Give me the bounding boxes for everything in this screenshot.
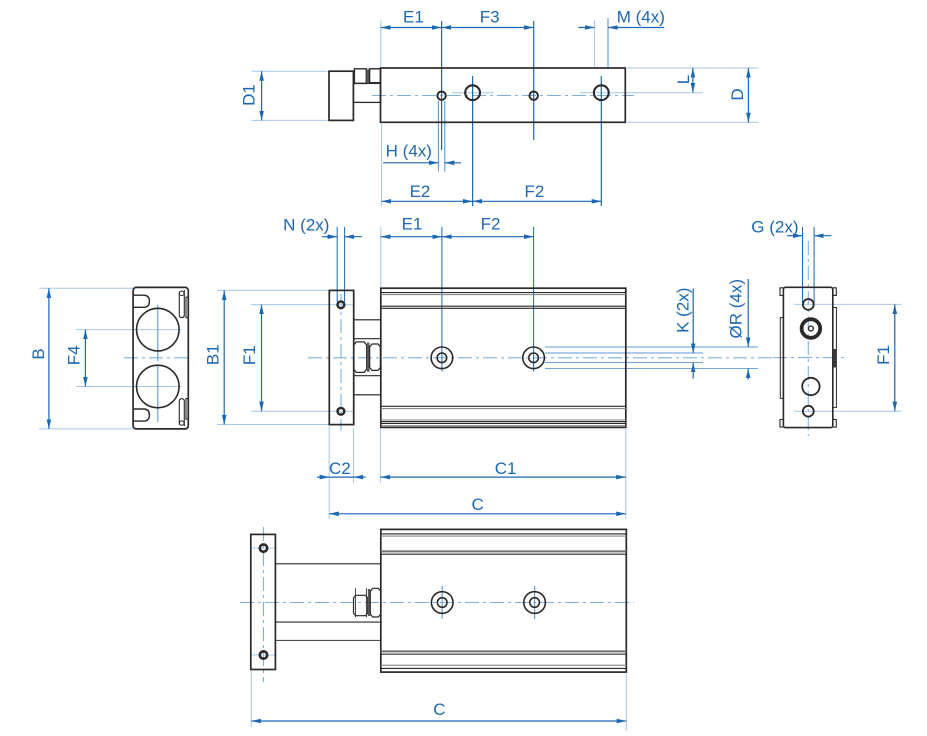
svg-text:F1: F1	[874, 345, 893, 365]
crosshair vertical counterbore 2	[534, 586, 536, 619]
plate screw bottom	[338, 408, 345, 415]
centerline horizontal	[773, 357, 847, 359]
extension lines N	[337, 227, 344, 302]
cylinder body	[381, 288, 626, 427]
extension line E1 left	[380, 21, 382, 67]
extension lines G	[803, 227, 815, 303]
extension line M left	[594, 20, 596, 67]
nut gap bar	[367, 69, 370, 83]
svg-text:E2: E2	[410, 182, 431, 201]
nut left half	[354, 342, 367, 373]
crosshair vertical big hole 1	[472, 76, 474, 206]
svg-text:B: B	[29, 348, 48, 359]
plate screw top	[260, 544, 267, 551]
nut square A	[354, 69, 366, 84]
extension line body top-right (D/L upper)	[627, 67, 759, 69]
corner tab top-left	[780, 288, 783, 296]
extension line C right	[625, 674, 627, 731]
dimension C1	[380, 476, 625, 478]
body extrusion lines bottom	[381, 405, 626, 407]
cushion screw boss	[802, 319, 821, 338]
top-right slot hook	[179, 291, 184, 296]
dimension E2	[382, 200, 473, 202]
nut square B	[370, 69, 381, 83]
svg-text:N (2x): N (2x)	[283, 215, 329, 234]
counterbore hole 2	[524, 592, 546, 614]
dimension C	[329, 513, 626, 515]
dimension D1	[261, 71, 263, 120]
crosshair vertical counterbore 1	[441, 586, 443, 619]
guide rod edge	[275, 639, 380, 641]
crosshair vertical small hole 1	[441, 21, 443, 150]
plate screw bottom	[260, 651, 267, 658]
cylinder body	[381, 68, 626, 122]
svg-text:C2: C2	[329, 459, 351, 478]
svg-text:K (2x): K (2x)	[673, 288, 692, 333]
svg-text:F3: F3	[480, 8, 500, 27]
nut left half	[354, 595, 368, 615]
extension line body bottom-right (D lower)	[627, 121, 759, 123]
profile outline	[133, 287, 188, 429]
corner tab top-right	[833, 288, 837, 296]
extension line C1 left	[379, 429, 381, 483]
nut middle bar	[368, 589, 370, 616]
port hole top	[803, 299, 814, 310]
end cap body	[783, 287, 832, 427]
dimension C	[251, 720, 626, 722]
bore circle lower	[137, 365, 180, 408]
top-right slot	[179, 290, 184, 318]
hole crosshair / F1 extension bottom	[794, 410, 901, 412]
plate screw top	[338, 301, 345, 308]
svg-text:F2: F2	[481, 214, 501, 233]
extension lines H	[438, 101, 444, 172]
extension lines D1	[252, 71, 328, 120]
crosshair vertical counterbore 1	[441, 227, 443, 372]
crosshair vertical big hole 2	[600, 76, 602, 206]
right edge strip	[833, 308, 837, 408]
rod edges	[354, 339, 381, 376]
dimension M arrows	[579, 27, 595, 29]
extension line C left	[328, 426, 330, 519]
big hole 1	[465, 85, 480, 100]
svg-text:E1: E1	[403, 8, 424, 27]
svg-text:G (2x): G (2x)	[751, 218, 798, 237]
port hole bottom	[803, 406, 814, 417]
dimension E1	[381, 27, 442, 29]
plate hole crosshairs	[330, 305, 353, 412]
dimension C2	[329, 476, 353, 478]
svg-text:C: C	[472, 495, 484, 514]
extension line C2 right	[353, 428, 355, 483]
hole crosshair / F1 extension top	[794, 303, 901, 305]
svg-text:E1: E1	[402, 214, 423, 233]
rod housing	[354, 320, 381, 395]
bore circle upper	[137, 308, 180, 351]
body extrusion lines bottom	[381, 650, 627, 652]
extension lines F1 left	[251, 305, 330, 412]
svg-text:F4: F4	[64, 345, 83, 365]
svg-text:L: L	[674, 75, 693, 84]
cylinder body	[381, 529, 627, 672]
crosshair vertical small hole 2	[533, 21, 535, 140]
extension line E1 left	[380, 227, 382, 287]
body extrusion lines top	[381, 533, 627, 535]
svg-text:B1: B1	[204, 344, 223, 365]
crosshair vertical counterbore 2	[533, 227, 535, 372]
svg-text:H (4x): H (4x)	[386, 142, 432, 161]
extension lines B1	[218, 290, 330, 424]
dimension F2	[442, 236, 534, 238]
dimension F4	[84, 330, 86, 387]
dimension L	[692, 68, 694, 93]
svg-text:C1: C1	[495, 459, 517, 478]
dimension F1 left	[261, 305, 263, 412]
plate hole crosshairs	[252, 548, 277, 655]
svg-text:M (4x): M (4x)	[617, 8, 665, 27]
mounting plate	[329, 290, 353, 424]
plate centerline vertical	[263, 527, 265, 682]
nut right half	[370, 344, 381, 370]
mounting plate	[251, 534, 276, 669]
small hole 2	[530, 92, 538, 100]
rod bottom edge	[275, 621, 380, 623]
left edge strip	[780, 318, 783, 399]
plate centerline vertical	[340, 294, 342, 431]
bottom-right slot	[179, 399, 184, 427]
dimension D	[747, 68, 749, 122]
extension line M right	[607, 18, 609, 67]
plain hole lower	[802, 378, 819, 395]
svg-text:F2: F2	[524, 182, 544, 201]
bottom-right edge notch	[186, 399, 188, 420]
centerline main axis	[372, 95, 634, 97]
svg-text:D: D	[728, 88, 747, 100]
dimension G arrows	[787, 235, 803, 237]
nut facet lines	[355, 588, 366, 617]
centerline vertical	[807, 241, 809, 436]
svg-text:ØR (4x): ØR (4x)	[726, 279, 745, 339]
big hole 2	[594, 85, 609, 100]
right strip dark segment	[833, 349, 837, 368]
dimension H arrows	[383, 162, 438, 164]
counterbore hole 2	[523, 347, 545, 369]
counterbore hole 1	[431, 347, 453, 369]
top-left T-slot	[134, 295, 149, 307]
nut right half	[370, 588, 381, 617]
extension line C left	[250, 671, 252, 727]
centerline main axis	[240, 602, 634, 604]
top-right edge notch	[186, 297, 188, 318]
svg-text:F1: F1	[240, 345, 259, 365]
bore crosshairs vertical	[157, 305, 159, 422]
mounting plate (rod end)	[329, 71, 353, 120]
dimension F3	[442, 27, 534, 29]
dimension E1	[381, 236, 442, 238]
piston rod	[353, 83, 380, 102]
crosshair light through big holes	[452, 92, 703, 94]
dimension F2 top view	[473, 200, 602, 202]
dimension B	[48, 288, 50, 429]
extension lines OR	[545, 347, 758, 369]
dimension N arrows	[322, 236, 337, 238]
extension lines K	[545, 353, 703, 363]
svg-text:C: C	[433, 700, 445, 719]
centerline horizontal	[124, 357, 191, 359]
dimension F1 right	[894, 304, 896, 411]
dimension K arrows	[692, 289, 694, 354]
bottom-right slot hook	[179, 421, 184, 426]
dimension B1	[223, 290, 225, 424]
corner tab bottom-right	[833, 420, 837, 428]
dimension OR arrows	[747, 279, 749, 347]
centerline main axis	[308, 357, 775, 359]
extension lines B	[39, 288, 133, 429]
extension line E2 left	[381, 124, 383, 206]
svg-text:D1: D1	[240, 84, 259, 106]
counterbore hole 1	[431, 592, 453, 614]
nut middle bar	[367, 343, 370, 372]
small hole 1	[437, 92, 445, 100]
corner tab bottom-left	[780, 420, 783, 428]
bottom-left T-slot	[134, 409, 149, 421]
extension line C right	[625, 429, 627, 519]
extension lines F4 / bore crosshairs horizontal	[76, 330, 182, 387]
rod housing top edge	[275, 563, 380, 565]
body extrusion lines top	[381, 292, 626, 294]
